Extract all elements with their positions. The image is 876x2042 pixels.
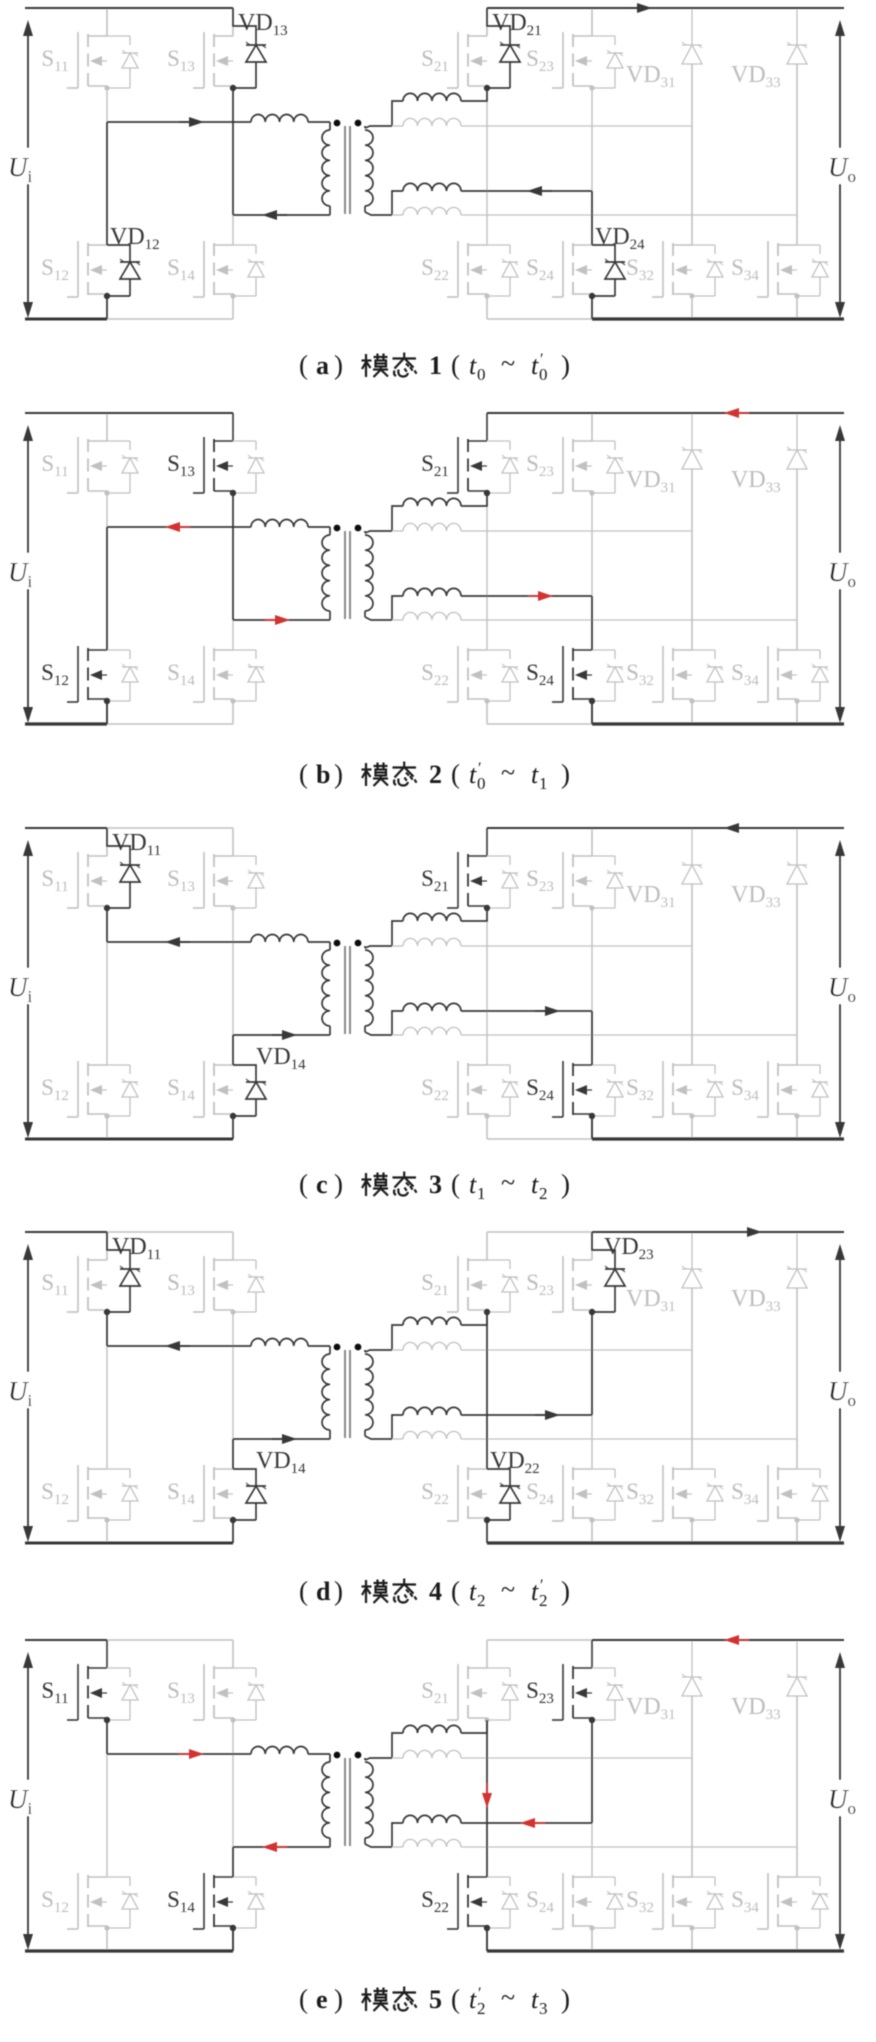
diode VD24 (conducting)	[589, 224, 645, 319]
diode VD33	[731, 8, 807, 245]
caption panel (d)	[299, 1575, 570, 1610]
current arrow wire A	[179, 1749, 204, 1759]
transistor S11	[41, 8, 138, 88]
wire mid vertical leg4 right	[796, 64, 798, 245]
svg-text:t: t	[469, 1985, 477, 2014]
wire secondary top lead	[365, 126, 392, 128]
wire mid vertical leg2 right	[591, 493, 593, 650]
wire leg2 right mid energized	[591, 1720, 593, 1823]
node dot bottom x=592	[589, 293, 594, 298]
wire leg2 right energized	[591, 596, 593, 650]
transistor S32	[626, 646, 723, 724]
wire bottom rail energized (left)	[25, 1542, 233, 1545]
diode VD21 (conducting)	[484, 8, 542, 91]
node dot bottom x=233	[230, 1517, 235, 1522]
wire bottom rail energized (left)	[25, 1138, 233, 1141]
wire mid vertical leg2 left	[232, 88, 234, 245]
voltage arrow U_o (c)	[824, 840, 866, 1138]
inductor branch A	[403, 1317, 461, 1325]
node dot top x=487	[484, 490, 489, 495]
wire branch C to leg2	[461, 190, 592, 192]
diode VD31	[626, 1640, 702, 1877]
node dot bottom x=692	[689, 1925, 694, 1930]
node dot top x=487	[484, 85, 489, 90]
node dot top x=592	[589, 905, 594, 910]
transistor S14	[167, 1061, 233, 1139]
current arrow wire B	[262, 1842, 287, 1852]
svg-text:b: b	[316, 760, 330, 789]
inductor branch C	[403, 1815, 461, 1823]
wire mid vertical leg2 right	[591, 1720, 593, 1877]
node S22 source	[484, 1925, 490, 1931]
wire A primary top	[107, 1345, 251, 1347]
wire top rail energized (left)	[25, 7, 233, 9]
node dot bottom x=487	[484, 1517, 489, 1522]
svg-text:c: c	[316, 1170, 328, 1199]
transformer secondary winding	[365, 1350, 373, 1436]
transistor S11	[41, 1232, 107, 1312]
top rail left bridge	[25, 412, 233, 414]
wire mid vertical leg4 right	[796, 884, 798, 1065]
transistor S24 (conducting)	[526, 646, 623, 724]
inductor branch B (gray)	[392, 118, 461, 126]
transistor S23	[526, 1232, 592, 1312]
wire leg1 energized	[106, 122, 108, 245]
svg-text:5: 5	[429, 1985, 442, 2014]
transformer primary winding	[322, 122, 330, 215]
current arrow branch C	[535, 1410, 560, 1420]
diode VD33	[731, 1232, 807, 1469]
transformer secondary winding	[365, 1758, 373, 1844]
wire secondary bottom lead	[365, 617, 392, 620]
node dot bottom x=692	[689, 698, 694, 703]
svg-text:): )	[334, 1576, 343, 1606]
inductor branch B (gray)	[392, 938, 461, 946]
inductor branch D (gray)	[392, 1027, 461, 1035]
wire A to winding	[308, 941, 330, 943]
wire secondary top lead	[365, 1758, 392, 1760]
svg-text:~: ~	[501, 1983, 515, 2012]
current arrow branch C	[520, 1818, 545, 1828]
polarity dot secondary	[355, 1752, 362, 1759]
wire bottom rail energized (left)	[25, 1949, 233, 1952]
node S24 source	[589, 1113, 595, 1119]
wire B primary bottom	[233, 1034, 330, 1036]
node dot bottom x=592	[589, 1113, 594, 1118]
voltage arrow U_o (d)	[824, 1244, 866, 1542]
wire branch C to leg2	[461, 595, 592, 597]
transistor S11	[41, 413, 138, 493]
top rail right bridge	[487, 1231, 844, 1233]
node dot bottom x=107	[104, 698, 109, 703]
wire mid vertical leg3 right	[691, 884, 693, 1065]
voltage arrow U_o (a)	[824, 20, 866, 318]
wire mid vertical leg3 right	[691, 1288, 693, 1469]
caption panel (b)	[299, 758, 570, 793]
wire branch A to leg1 node	[461, 1720, 487, 1733]
svg-text:t: t	[531, 760, 539, 789]
transformer primary winding	[322, 942, 330, 1035]
svg-text:~: ~	[501, 758, 515, 787]
svg-text:1: 1	[429, 351, 442, 380]
node dot bottom x=107	[104, 1517, 109, 1522]
wire leg2 right energized	[591, 1011, 593, 1065]
current arrow wire A	[179, 117, 204, 127]
current arrow top rail right	[724, 408, 749, 418]
polarity dot secondary	[355, 120, 362, 127]
diode VD31	[626, 413, 702, 650]
node dot bottom x=692	[689, 1517, 694, 1522]
node S21 source	[484, 905, 490, 911]
top rail right bridge	[487, 7, 844, 9]
transistor S14	[167, 241, 264, 319]
wire A primary top	[107, 526, 251, 528]
wire leg2 to wireB	[232, 1439, 234, 1469]
node dot top x=592	[589, 1309, 594, 1314]
node dot top x=592	[589, 1717, 594, 1722]
node dot bottom x=797	[794, 1113, 799, 1118]
wire leg1 node to wireA	[106, 1312, 108, 1346]
diode VD23 (conducting)	[589, 1232, 654, 1315]
transistor S23	[526, 828, 623, 908]
wire branch A to leg1 node	[461, 1312, 487, 1325]
svg-text:): )	[561, 1576, 570, 1606]
current arrow wire B	[272, 1434, 297, 1444]
polarity dot primary	[334, 1752, 341, 1759]
wire branch A jog	[392, 1325, 403, 1350]
caption panel (a)	[299, 349, 570, 384]
transformer secondary winding	[365, 126, 373, 212]
diode VD33	[731, 828, 807, 1065]
svg-text:t: t	[469, 351, 477, 380]
svg-text:0: 0	[539, 365, 548, 384]
node dot bottom x=107	[104, 1925, 109, 1930]
inductor branch A	[403, 498, 461, 506]
wire top rail energized (right)	[487, 7, 844, 9]
wire B primary bottom	[233, 1846, 330, 1848]
svg-text:d: d	[316, 1577, 331, 1606]
node dot top x=107	[104, 1309, 109, 1314]
svg-text:2: 2	[477, 1999, 486, 2018]
node dot top x=487	[484, 1309, 489, 1314]
transformer secondary winding	[365, 531, 373, 617]
wire B primary bottom	[233, 1438, 330, 1440]
wire secondary bottom lead	[365, 212, 392, 215]
wire mid vertical leg3 right	[691, 1696, 693, 1877]
wire top rail energized (right)	[487, 412, 844, 414]
current arrow top rail right	[627, 3, 652, 13]
diode VD33	[731, 413, 807, 650]
svg-text:(: (	[451, 1576, 460, 1606]
wire leg2 to wireB	[232, 1035, 234, 1065]
node dot bottom x=797	[794, 293, 799, 298]
current arrow top rail right	[737, 1227, 762, 1237]
polarity dot secondary	[355, 940, 362, 947]
svg-text:): )	[561, 1169, 570, 1199]
voltage arrow U_i (d)	[4, 1244, 46, 1542]
transformer core	[345, 531, 350, 619]
current arrow wire A	[165, 937, 190, 947]
svg-text:3: 3	[429, 1170, 442, 1199]
wire mid vertical leg1 left	[106, 493, 108, 650]
transistor S12 (conducting)	[41, 646, 138, 724]
node S23 source	[589, 1717, 595, 1723]
bottom rail left bridge	[25, 1542, 233, 1544]
diode VD22 (conducting)	[484, 1448, 540, 1543]
wire branch B to leg3	[461, 1757, 692, 1759]
polarity dot secondary	[355, 1344, 362, 1351]
node dot bottom x=797	[794, 1517, 799, 1522]
transistor S32	[626, 241, 723, 319]
wire branch D to leg4	[461, 1438, 797, 1440]
current arrow branch C	[528, 591, 553, 601]
top rail left bridge	[25, 7, 233, 9]
transistor S34	[731, 1061, 828, 1139]
transistor S22	[421, 1465, 487, 1543]
svg-text:(: (	[299, 1576, 308, 1606]
wire branch B to leg3	[461, 125, 692, 127]
polarity dot primary	[334, 120, 341, 127]
wire secondary bottom lead	[365, 1032, 392, 1035]
wire branch D to leg4	[461, 214, 797, 216]
transistor S24	[526, 1465, 623, 1543]
wire branch A jog	[392, 921, 403, 946]
bottom rail right bridge	[487, 1542, 844, 1544]
current arrow wire A	[165, 1341, 190, 1351]
wire mid vertical leg2 right	[591, 88, 593, 245]
svg-text:): )	[561, 759, 570, 789]
svg-text:(: (	[451, 759, 460, 789]
node dot bottom x=233	[230, 698, 235, 703]
wire S12 source to rail	[106, 701, 108, 724]
wire branch C jog	[392, 596, 403, 620]
transistor S24 (conducting)	[526, 1061, 623, 1139]
inductor branch C	[403, 588, 461, 596]
wire mid vertical leg4 right	[796, 469, 798, 650]
inductor branch D (gray)	[392, 1839, 461, 1847]
wire branch D to leg4	[461, 1034, 797, 1036]
bottom rail left bridge	[25, 1138, 233, 1140]
transistor S21	[421, 1232, 518, 1312]
voltage arrow U_i (a)	[4, 20, 46, 318]
wire branch A to leg1 node	[461, 493, 487, 506]
wire S14 source to rail	[232, 1928, 234, 1951]
wire branch B to leg3	[461, 1349, 692, 1351]
node dot bottom x=487	[484, 698, 489, 703]
wire leg1 energized	[106, 527, 108, 650]
wire bottom rail energized (right)	[592, 317, 844, 320]
wire mid vertical leg1 right	[486, 88, 488, 245]
svg-text:(: (	[451, 1984, 460, 2014]
svg-text:1: 1	[539, 774, 548, 793]
wire top rail energized (right)	[487, 827, 844, 829]
wire branch A jog	[392, 101, 403, 126]
svg-text:): )	[334, 350, 343, 380]
svg-text:t: t	[469, 760, 477, 789]
transistor S22 (conducting)	[421, 1873, 518, 1951]
transistor S34	[731, 241, 828, 319]
svg-text:(: (	[451, 1169, 460, 1199]
wire leg1 node to wireA	[106, 908, 108, 942]
wire leg2 to wireB	[232, 1847, 234, 1877]
inductor branch A	[403, 93, 461, 101]
transistor S34	[731, 646, 828, 724]
top rail right bridge	[487, 412, 844, 414]
inductor branch B (gray)	[392, 1342, 461, 1350]
svg-text:): )	[334, 1984, 343, 2014]
wire mid vertical leg2 left	[232, 1312, 234, 1469]
wire branch B to leg3	[461, 945, 692, 947]
transistor S23	[526, 8, 623, 88]
bottom rail left bridge	[25, 318, 233, 320]
transistor S34	[731, 1873, 828, 1951]
voltage arrow U_o (e)	[824, 1652, 866, 1950]
svg-text:~: ~	[501, 1575, 515, 1604]
node dot top x=233	[230, 905, 235, 910]
inductor primary leakage	[251, 115, 308, 122]
transistor S13 (conducting)	[167, 413, 264, 493]
wire mid vertical leg4 right	[796, 1288, 798, 1469]
transformer core	[345, 1350, 350, 1438]
svg-text:(: (	[299, 759, 308, 789]
wire mid vertical leg2 right	[591, 1312, 593, 1469]
node S21 source	[484, 490, 490, 496]
wire leg2 mid energized	[232, 88, 234, 215]
svg-text:2: 2	[477, 1591, 486, 1610]
transistor S22	[421, 241, 518, 319]
current arrow branch C down	[482, 1783, 492, 1808]
svg-text:t: t	[531, 1170, 539, 1199]
voltage arrow U_i (b)	[4, 425, 46, 723]
node dot bottom x=487	[484, 1925, 489, 1930]
node dot bottom x=797	[794, 1925, 799, 1930]
svg-text:t: t	[469, 1170, 477, 1199]
wire bottom rail energized (right)	[487, 1541, 844, 1544]
svg-text:1: 1	[477, 1184, 486, 1203]
wire A to winding	[308, 526, 330, 528]
transistor S21	[421, 1640, 518, 1720]
node S14 source	[230, 1925, 236, 1931]
wire leg2 right energized	[591, 191, 593, 245]
node dot top x=592	[589, 490, 594, 495]
node dot top x=487	[484, 905, 489, 910]
svg-text:4: 4	[429, 1577, 442, 1606]
polarity dot secondary	[355, 525, 362, 532]
transistor S24	[526, 1873, 623, 1951]
wire A primary top	[107, 1753, 251, 1755]
bottom rail right bridge	[487, 723, 844, 725]
wire branch C jog	[392, 1011, 403, 1035]
inductor branch D (gray)	[392, 1431, 461, 1439]
svg-text:0: 0	[477, 365, 486, 384]
wire leg2 right mid energized	[591, 1312, 593, 1415]
wire top rail energized (right)	[592, 1231, 844, 1233]
diode VD31	[626, 8, 702, 245]
transformer core	[345, 1758, 350, 1846]
node dot top x=233	[230, 490, 235, 495]
transistor S24	[526, 241, 592, 319]
svg-text:a: a	[316, 351, 329, 380]
svg-text:t: t	[531, 1577, 539, 1606]
wire secondary top lead	[365, 946, 392, 948]
wire branch C jog	[392, 1823, 403, 1847]
inductor branch C	[403, 1003, 461, 1011]
wire B primary bottom	[233, 619, 330, 621]
wire bottom rail energized (right)	[487, 1949, 844, 1952]
wire branch A to leg1 node	[461, 908, 487, 921]
node dot top x=107	[104, 85, 109, 90]
wire mid vertical leg2 left	[232, 908, 234, 1065]
wire mid vertical leg1 right	[486, 1312, 488, 1469]
inductor primary leakage	[251, 520, 308, 527]
wire branch A to leg1 node	[461, 88, 487, 101]
wire A to winding	[308, 1753, 330, 1755]
node dot bottom x=107	[104, 293, 109, 298]
current arrow branch C	[527, 186, 552, 196]
transformer primary winding	[322, 1754, 330, 1847]
transistor S13	[167, 1640, 264, 1720]
diode VD31	[626, 828, 702, 1065]
bottom rail left bridge	[25, 723, 233, 725]
voltage arrow U_o (b)	[824, 425, 866, 723]
node S12 source	[104, 698, 110, 704]
wire A primary top	[107, 941, 251, 943]
wire leg1 node to wireA	[106, 1720, 108, 1754]
node dot top x=233	[230, 85, 235, 90]
bottom rail right bridge	[487, 1950, 844, 1952]
svg-text:3: 3	[539, 1999, 548, 2018]
transistor S11	[41, 828, 107, 908]
wire mid vertical leg1 right	[486, 908, 488, 1065]
transistor S14	[167, 646, 264, 724]
wire S24 source to rail	[591, 701, 593, 724]
transformer core	[345, 946, 350, 1034]
inductor primary leakage	[251, 1339, 308, 1346]
wire mid vertical leg2 left	[232, 493, 234, 650]
wire mid vertical leg1 left	[106, 88, 108, 245]
current arrow wire B	[262, 210, 287, 220]
wire leg1 right energized	[486, 1312, 488, 1469]
node dot bottom x=692	[689, 1113, 694, 1118]
wire mid vertical leg2 right	[591, 908, 593, 1065]
inductor branch D (gray)	[392, 612, 461, 620]
current arrow top rail right	[724, 823, 749, 833]
top rail left bridge	[25, 1231, 233, 1233]
wire top rail energized (left)	[25, 412, 233, 414]
svg-text:(: (	[299, 1984, 308, 2014]
node dot top x=233	[230, 1309, 235, 1314]
wire secondary bottom lead	[365, 1436, 392, 1439]
top rail left bridge	[25, 827, 233, 829]
inductor branch B (gray)	[392, 1750, 461, 1758]
wire S24 source to rail	[591, 1116, 593, 1139]
node branch A at leg1	[484, 1309, 490, 1315]
wire top rail energized (left)	[25, 1639, 107, 1641]
wire A primary top	[107, 121, 251, 123]
transformer primary winding	[322, 527, 330, 620]
wire branch C to leg2	[461, 1822, 592, 1824]
transistor S23 (conducting)	[526, 1640, 623, 1720]
inductor branch C	[403, 1407, 461, 1415]
svg-text:~: ~	[501, 349, 515, 378]
transistor S32	[626, 1061, 723, 1139]
bottom rail left bridge	[25, 1950, 233, 1952]
wire mid vertical leg1 left	[106, 908, 108, 1065]
transistor S34	[731, 1465, 828, 1543]
node dot top x=487	[484, 1717, 489, 1722]
svg-text:): )	[334, 1169, 343, 1199]
inductor primary leakage	[251, 935, 308, 942]
